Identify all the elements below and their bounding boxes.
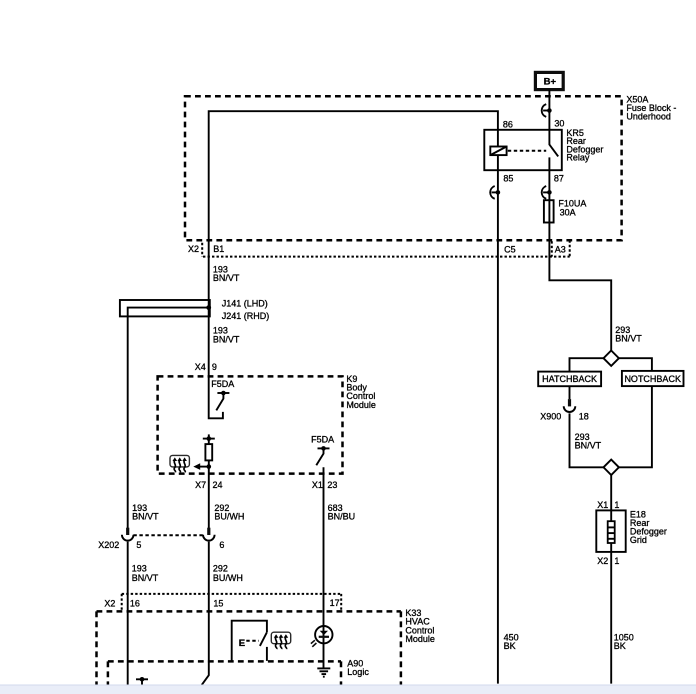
resistor stub — [208, 434, 210, 444]
wire splice to E18 and down / 1050 BK — [610, 475, 612, 684]
svg-text:C5: C5 — [504, 244, 516, 254]
svg-text:F5DA: F5DA — [211, 379, 234, 389]
svg-text:J241 (RHD): J241 (RHD) — [222, 311, 270, 321]
A90 logic dashed box — [108, 661, 341, 685]
K9 label Body Control Module — [346, 374, 376, 410]
connector clip at pin 30 — [542, 104, 552, 117]
svg-text:X1: X1 — [312, 480, 323, 490]
pin label X7 24 — [195, 480, 222, 490]
E18 label Rear Defogger Grid — [630, 510, 667, 546]
wire HATCHBACK to X900 — [569, 386, 571, 399]
LED indicator lamp — [311, 626, 333, 647]
fuse block X50A dashed box — [185, 96, 622, 240]
resistor terminal dot — [203, 436, 215, 441]
ground symbol — [317, 668, 330, 676]
svg-text:Relay: Relay — [566, 153, 590, 163]
svg-text:86: 86 — [503, 120, 513, 130]
svg-text:BN/VT: BN/VT — [132, 573, 159, 583]
wire relay 85 down / 450 BK — [497, 155, 499, 684]
connector clip at pin 87 — [542, 186, 552, 199]
svg-text:6: 6 — [219, 540, 224, 550]
terminal in A90 — [136, 677, 148, 685]
svg-text:87: 87 — [554, 173, 564, 183]
svg-text:BN/VT: BN/VT — [213, 273, 240, 283]
heater grid icon (K33) — [271, 632, 290, 649]
svg-text:30A: 30A — [560, 208, 576, 218]
K33 connector strip X2 — [122, 594, 342, 610]
svg-text:5: 5 — [136, 540, 141, 550]
svg-text:Underhood: Underhood — [626, 112, 671, 122]
wire J141 left branch down — [127, 316, 129, 528]
wire X4-9 into K9 to switch contact — [209, 308, 223, 419]
label J141 (LHD) J241 (RHD) — [222, 298, 270, 321]
svg-text:A3: A3 — [555, 244, 566, 254]
svg-text:X2: X2 — [104, 599, 115, 609]
svg-text:BK: BK — [504, 641, 516, 651]
svg-text:24: 24 — [213, 480, 223, 490]
wire label 193 BN/VT (left col) — [132, 503, 159, 522]
switch F5DA arm — [216, 393, 223, 410]
connector X900 terminal — [564, 399, 576, 412]
wire relay coil feed from B1 — [209, 111, 498, 307]
A90 label Logic — [347, 658, 369, 677]
connector X202 pin 5 — [122, 528, 134, 541]
pin label X1 1 — [597, 500, 619, 510]
svg-text:17: 17 — [330, 598, 340, 608]
E mechanical link dashes — [246, 640, 258, 642]
svg-text:BN/VT: BN/VT — [213, 334, 240, 344]
svg-text:X202: X202 — [98, 540, 119, 550]
svg-text:Module: Module — [405, 634, 435, 644]
svg-text:18: 18 — [579, 412, 589, 422]
svg-text:F5DA: F5DA — [311, 434, 334, 444]
wire label 1050 BK — [614, 632, 634, 651]
svg-text:B+: B+ — [544, 77, 557, 88]
E switch arm — [260, 632, 267, 646]
wire to HATCHBACK — [570, 358, 604, 371]
svg-text:X2: X2 — [188, 244, 199, 254]
wire label 683 BN/BU — [328, 503, 356, 522]
svg-text:HATCHBACK: HATCHBACK — [542, 374, 597, 384]
svg-text:Logic: Logic — [347, 667, 369, 677]
svg-text:193: 193 — [132, 564, 147, 574]
svg-text:X2: X2 — [597, 556, 608, 566]
switch F5DA terminal dot — [217, 391, 229, 396]
fuse block bottom connector strip — [202, 240, 570, 256]
svg-text:9: 9 — [212, 362, 217, 372]
relay mechanical link — [508, 150, 546, 152]
X202 link dashed — [133, 534, 202, 536]
wire resistor down through X7-24 — [208, 460, 210, 528]
splice pack J141/J241 — [120, 300, 211, 316]
svg-text:X7: X7 — [195, 480, 206, 490]
svg-text:23: 23 — [327, 480, 337, 490]
wire B+ to relay pin 30 — [548, 90, 550, 130]
arrow to heater icon — [193, 463, 209, 470]
wire label 293 BN/VT (lower) — [575, 432, 602, 451]
svg-text:BN/BU: BN/BU — [328, 512, 356, 522]
relay switch arm — [549, 145, 558, 157]
wire relay 87 down to A3 and jog right — [549, 157, 611, 350]
wire to NOTCHBACK — [619, 358, 652, 371]
svg-text:292: 292 — [213, 564, 228, 574]
svg-text:Module: Module — [346, 400, 376, 410]
svg-text:BN/VT: BN/VT — [615, 334, 642, 344]
resistor element — [205, 444, 212, 460]
wire label 193 BN/VT (bottom) — [132, 564, 159, 584]
svg-text:Grid: Grid — [630, 535, 647, 545]
pin label X4 9 — [195, 362, 217, 372]
pin label X2 1 — [597, 556, 619, 566]
wire switch2 down to LED and ground — [323, 467, 325, 668]
wire label 450 BK — [504, 632, 519, 651]
heater grid icon (K9) — [170, 455, 189, 472]
wire label 193 BN/VT (above J141) — [213, 265, 240, 284]
K9 body control module dashed box — [158, 376, 343, 473]
svg-text:BN/VT: BN/VT — [575, 441, 602, 451]
NOTCHBACK option box — [622, 371, 684, 386]
switch box with E inside K33 — [232, 621, 267, 661]
svg-text:B1: B1 — [213, 244, 224, 254]
svg-text:1: 1 — [614, 500, 619, 510]
K33 label HVAC Control Module — [405, 608, 435, 644]
wire label 292 BU/WH — [214, 503, 244, 522]
wire label 292 BU/WH (bottom) — [213, 564, 243, 584]
switch F5DA2 arm — [316, 448, 323, 465]
svg-text:BU/WH: BU/WH — [213, 573, 243, 583]
relay KR5 box — [484, 130, 562, 170]
B+ power symbol — [535, 72, 563, 89]
svg-text:1: 1 — [614, 556, 619, 566]
svg-text:BK: BK — [614, 641, 626, 651]
fuse block label X50A Fuse Block - Underhood — [626, 94, 676, 121]
svg-text:30: 30 — [554, 119, 564, 129]
splice diamond lower — [604, 460, 619, 475]
svg-text:X1: X1 — [597, 500, 608, 510]
connector clip at pin 85 — [490, 186, 500, 199]
svg-text:15: 15 — [213, 599, 223, 609]
svg-text:NOTCHBACK: NOTCHBACK — [624, 374, 681, 384]
svg-text:E: E — [239, 638, 245, 649]
wire label 193 BN/VT (below J141) — [213, 326, 240, 345]
svg-text:16: 16 — [130, 599, 140, 609]
connector X202 pin 6 — [203, 528, 215, 541]
relay switch pin 30 stub — [548, 130, 550, 145]
wire X900 to lower splice — [570, 413, 604, 467]
splice diamond upper — [604, 351, 619, 366]
switch F5DA2 terminal dot — [318, 446, 330, 451]
wire left below X202 — [127, 542, 129, 685]
wire NOTCHBACK to lower splice — [619, 386, 652, 467]
svg-text:J141 (LHD): J141 (LHD) — [222, 298, 268, 308]
svg-text:BN/VT: BN/VT — [132, 512, 159, 522]
svg-text:85: 85 — [503, 173, 513, 183]
K33 HVAC control module dashed box — [97, 611, 401, 685]
bottom window band — [0, 685, 696, 694]
svg-text:X4: X4 — [195, 362, 206, 372]
relay coil — [490, 147, 506, 156]
wire label 293 BN/VT (upper) — [615, 325, 642, 344]
relay label KR5 Rear Defogger Relay — [566, 128, 603, 163]
pin label X1 23 — [312, 480, 338, 490]
E18 rear defogger grid box — [596, 510, 625, 552]
junction dot — [207, 464, 212, 469]
svg-text:X900: X900 — [540, 412, 561, 422]
fuse F10UA 30A — [544, 199, 587, 223]
wire 292 below X202 — [202, 542, 209, 685]
HATCHBACK option box — [538, 372, 601, 387]
svg-text:BU/WH: BU/WH — [214, 512, 244, 522]
